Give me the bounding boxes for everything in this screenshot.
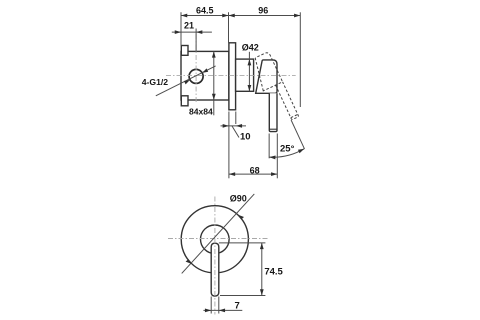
svg-text:Ø90: Ø90 (230, 194, 247, 204)
dashed handle rotated 25deg (249, 52, 299, 126)
tab bottom-left (181, 96, 188, 106)
dimension 25 degrees (269, 120, 304, 158)
svg-text:4-G1/2: 4-G1/2 (142, 77, 168, 87)
dimension Ø90 leader (182, 194, 255, 274)
dimension 74.5 (219, 243, 266, 296)
inner circle (201, 225, 230, 254)
svg-text:68: 68 (250, 165, 260, 175)
front view centerlines (168, 238, 268, 240)
outer escutcheon circle Ø90 (181, 206, 248, 273)
svg-text:74.5: 74.5 (264, 267, 283, 278)
dimension 84x84 vertical (213, 51, 215, 115)
lever end cap line (269, 128, 277, 130)
wall plate (229, 43, 236, 110)
svg-text:25°: 25° (280, 143, 295, 154)
front lever (211, 243, 219, 296)
dimension 21 (172, 29, 212, 52)
centerline main axis (166, 74, 296, 76)
inlet circle G1/2 (189, 69, 203, 83)
handle solid body (256, 60, 277, 93)
dimension 10 plate thickness (221, 112, 247, 179)
svg-text:64.5: 64.5 (196, 5, 214, 15)
cylinder base Ø42 (236, 59, 254, 91)
dimension 68 (229, 134, 277, 179)
body 84x84 square (181, 51, 229, 100)
centerline vertical through inlet circle (195, 34, 197, 102)
dimension 7 (203, 297, 242, 314)
svg-text:96: 96 (258, 5, 268, 15)
tab top-left (181, 46, 188, 56)
svg-text:10: 10 (240, 132, 251, 143)
dimension 96 (229, 12, 301, 107)
svg-text:7: 7 (235, 301, 240, 312)
svg-text:Ø42: Ø42 (242, 43, 259, 53)
svg-text:84x84: 84x84 (189, 106, 213, 116)
svg-text:21: 21 (184, 21, 194, 31)
dimension 64.5 (181, 12, 229, 45)
lever solid (269, 93, 277, 131)
